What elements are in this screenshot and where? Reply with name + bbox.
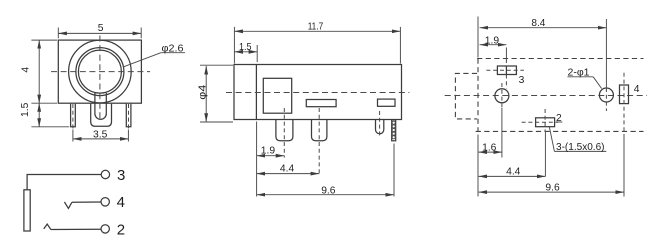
side pin C centerline	[379, 111, 381, 137]
terminal circle 4	[101, 198, 109, 206]
dimension 4.4 line (side)	[257, 173, 320, 175]
svg-text:φ4: φ4	[197, 84, 208, 99]
dimension 1.5 line (side)	[234, 51, 257, 53]
bottom view bushing bump	[455, 73, 477, 119]
front center u-channel	[95, 93, 106, 119]
front left pin centerline	[72, 104, 74, 129]
svg-text:1.5: 1.5	[20, 102, 31, 117]
front view body	[58, 40, 141, 103]
svg-text:3: 3	[519, 75, 525, 86]
svg-text:9.6: 9.6	[545, 183, 560, 194]
hole right circle	[599, 88, 613, 102]
svg-text:4.4: 4.4	[280, 163, 295, 174]
slot 3 horizontal centerline	[486, 69, 524, 71]
hole right vertical extension	[605, 19, 607, 88]
slot 2	[536, 118, 555, 127]
side pin C u-shape	[376, 120, 384, 134]
slot 2 horizontal centerline	[522, 121, 559, 123]
hole left circle	[495, 89, 509, 103]
side view bushing divider	[255, 65, 257, 120]
svg-text:4: 4	[21, 67, 32, 73]
dimension 3.5 line	[73, 138, 128, 140]
switch contact V	[64, 202, 72, 209]
svg-text:3-(1.5x0.6): 3-(1.5x0.6)	[556, 142, 605, 153]
dimension phi4 extension lines	[200, 64, 233, 66]
dimension 5 line	[58, 32, 141, 34]
svg-text:4: 4	[634, 84, 640, 95]
bottom view outline top edge	[477, 58, 643, 60]
side pin B	[312, 120, 327, 141]
bottom view centerline	[445, 95, 647, 97]
dimension 8.4 extension line	[477, 17, 479, 58]
side spring pin extension	[393, 144, 395, 197]
side view right slot	[378, 99, 396, 106]
svg-text:1.5: 1.5	[239, 42, 252, 53]
dimension 1.6 line	[479, 151, 502, 153]
front view horizontal centerline	[51, 71, 150, 73]
slot 3 vertical centerline	[505, 59, 507, 66]
dimension 4 extension lines	[31, 39, 57, 41]
svg-text:5: 5	[98, 23, 104, 34]
tip contact caret	[44, 224, 51, 230]
bottom view outline left edge	[477, 59, 479, 132]
slot 3	[497, 66, 516, 75]
bottom view outline bottom edge	[476, 130, 644, 132]
svg-text:3.5: 3.5	[93, 129, 108, 140]
wire terminal 2	[51, 228, 101, 230]
hole left circle vertical centerline	[501, 83, 503, 108]
svg-text:1.6: 1.6	[482, 143, 497, 154]
side pin B centerline	[318, 108, 320, 176]
wire terminal 3	[27, 175, 101, 190]
front view outer circle	[69, 40, 132, 103]
front right pin centerline	[128, 104, 130, 129]
svg-text:1.9: 1.9	[261, 146, 276, 157]
svg-text:9.6: 9.6	[321, 185, 336, 196]
svg-text:1.9: 1.9	[485, 35, 500, 46]
side pin A	[276, 120, 293, 141]
slot 2 extension down	[544, 131, 546, 176]
front view ring inner circle	[78, 50, 121, 93]
front right pin	[126, 104, 131, 127]
svg-text:φ2.6: φ2.6	[162, 43, 184, 54]
side view body	[234, 65, 402, 120]
wire terminal 4	[72, 201, 101, 203]
dimension 1.9 line (side)	[257, 155, 285, 157]
side left extension line	[256, 122, 258, 197]
bottom view left extension down	[477, 135, 479, 197]
svg-text:4.4: 4.4	[506, 167, 521, 178]
slot 4	[620, 85, 629, 104]
dimension 4.4 line (bottom view)	[479, 175, 546, 177]
svg-text:2: 2	[117, 222, 125, 239]
sleeve contact bar	[24, 190, 30, 231]
dimension phi4 line	[205, 66, 207, 122]
svg-text:4: 4	[117, 194, 125, 211]
dimension 1.5 extension (side)	[256, 45, 258, 62]
slot 4 vertical centerline	[623, 73, 625, 135]
dimension 1.9 line (bottom view)	[480, 44, 507, 46]
svg-text:3: 3	[117, 167, 125, 184]
hole left extension down	[501, 108, 503, 158]
terminal circle 2	[101, 225, 109, 233]
dimension 4 line	[38, 40, 40, 103]
side view centerline	[226, 92, 409, 94]
phi2.6 leader	[124, 53, 161, 67]
hole right circle vertical centerline	[605, 88, 607, 111]
dimension 9.6 line (side)	[257, 194, 394, 196]
svg-text:8.4: 8.4	[531, 18, 545, 29]
front left pin	[71, 104, 76, 127]
slot 2 vertical centerline	[544, 109, 546, 131]
side view inner box	[263, 78, 291, 113]
front view vertical centerline	[99, 36, 101, 123]
dimension 8.4 line	[480, 27, 607, 29]
dimension 3.5 extension lines	[72, 130, 74, 142]
side spring pin	[392, 120, 396, 141]
leader 3-(1.5x0.6)	[549, 127, 554, 152]
terminal circle 3	[101, 170, 109, 178]
side pin A centerline	[283, 108, 285, 158]
svg-text:11.7: 11.7	[308, 21, 324, 32]
dimension 11.7 extension lines	[233, 27, 235, 64]
dimension 9.6 line (bottom view)	[479, 191, 624, 193]
dimension 11.7 line	[234, 30, 400, 32]
dimension 5 extension lines	[57, 28, 59, 39]
front view ring outer circle	[76, 48, 124, 96]
side view middle slot	[306, 100, 336, 107]
dimension 1.5 line (front)	[38, 103, 40, 127]
front center sleeve pin	[91, 104, 112, 127]
slot 4 extension down	[623, 135, 625, 197]
leader 2-phi1	[593, 77, 601, 89]
